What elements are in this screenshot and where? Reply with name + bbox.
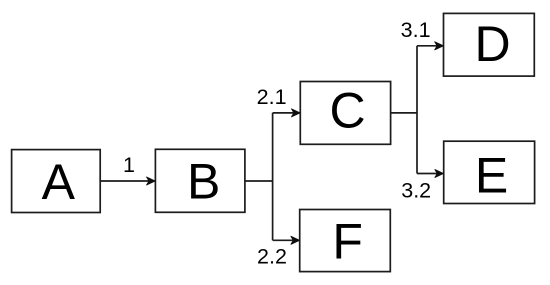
wire C to branch point 2 (391, 112, 417, 114)
arrowhead into E (435, 170, 444, 178)
wire branch to C (273, 112, 296, 114)
box B (155, 149, 245, 212)
svg-text:E: E (475, 148, 508, 204)
svg-text:B: B (187, 154, 220, 210)
wire branch to F (273, 239, 295, 241)
svg-text:2.2: 2.2 (257, 245, 287, 269)
svg-text:3.2: 3.2 (401, 179, 431, 203)
arrowhead into B (147, 177, 156, 185)
wire B to branch point (245, 180, 273, 182)
svg-text:F: F (332, 213, 363, 269)
box E (444, 141, 535, 203)
svg-text:1: 1 (123, 153, 135, 177)
vertical branch wire from C (416, 46, 418, 174)
wire branch to E (417, 173, 439, 175)
box A (12, 150, 101, 213)
svg-text:D: D (474, 16, 510, 72)
svg-text:3.1: 3.1 (401, 18, 431, 42)
svg-text:2.1: 2.1 (257, 85, 287, 109)
wire branch to D (417, 45, 439, 47)
arrowhead into C (292, 109, 301, 117)
box F (300, 210, 391, 272)
svg-text:A: A (42, 154, 76, 210)
arrowhead into F (291, 236, 300, 244)
box C (300, 82, 390, 145)
arrowhead into D (435, 42, 444, 50)
svg-text:C: C (329, 83, 365, 139)
wire A to B (100, 180, 150, 182)
box D (444, 13, 535, 76)
vertical branch wire from B (272, 113, 274, 240)
